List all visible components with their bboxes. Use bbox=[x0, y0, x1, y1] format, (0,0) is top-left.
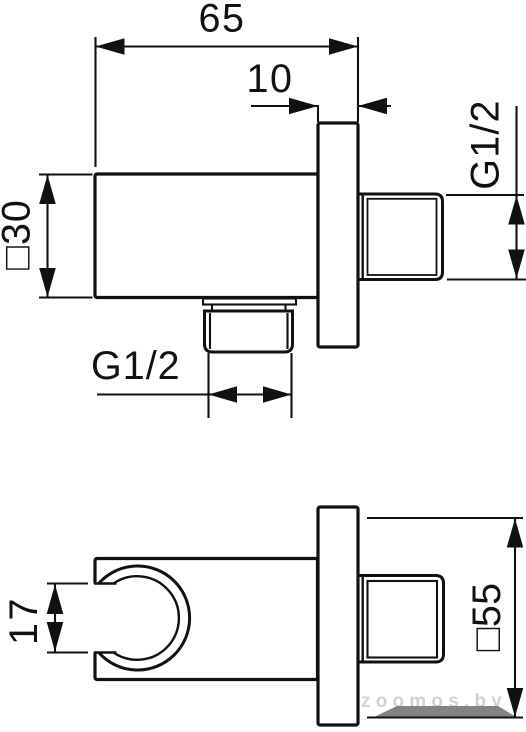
svg-text:17: 17 bbox=[2, 596, 46, 645]
dimension G1/2 (right): up arrowhead bbox=[508, 196, 525, 225]
dimension G1/2 (nut): leader line bbox=[97, 393, 292, 395]
dimension G1/2 (right): extension line top bbox=[446, 194, 524, 196]
svg-text:10: 10 bbox=[247, 57, 294, 101]
top view: union nut flange bbox=[203, 299, 296, 312]
bottom view: wall plate bbox=[318, 507, 358, 725]
dimension G1/2 (nut): extension line left bbox=[207, 353, 209, 418]
dimension G1/2 (right): down arrowhead bbox=[508, 250, 525, 279]
top view: threaded connector G1/2 outer bbox=[358, 194, 443, 280]
dimension 17: dimension line bbox=[54, 584, 56, 652]
dimension G1/2 (right): dimension line bbox=[515, 106, 517, 279]
svg-text:□55: □55 bbox=[465, 583, 509, 652]
dimension 65: extension line right bbox=[357, 37, 359, 122]
dimension 30: top arrowhead bbox=[39, 175, 56, 204]
svg-text:G1/2: G1/2 bbox=[464, 99, 508, 189]
dimension 30: extension line bottom bbox=[39, 296, 93, 298]
watermark shadow blob bbox=[373, 706, 517, 718]
dimension 17: down arrowhead bbox=[47, 622, 64, 652]
bottom view: cradle inner arc bbox=[114, 576, 179, 660]
dimension 55: dimension line bbox=[514, 518, 516, 718]
dimension 10: left leader bbox=[251, 105, 318, 107]
dimension 30: dimension line bbox=[46, 175, 48, 298]
bottom view: threaded connector G1/2 outer bbox=[358, 576, 444, 663]
dimension 17: up arrowhead bbox=[47, 585, 64, 615]
dimension 17: extension line bottom bbox=[47, 651, 88, 653]
top view: wall plate bbox=[318, 123, 358, 347]
dimension 10: extension line bbox=[317, 105, 319, 122]
svg-text:G1/2: G1/2 bbox=[91, 344, 181, 388]
dimension G1/2 (nut): extension line right bbox=[290, 353, 292, 418]
dimension 10: right arrowhead bbox=[358, 98, 387, 115]
dimension 30: extension line top bbox=[39, 173, 93, 175]
bottom view: lower lip line bbox=[94, 651, 117, 653]
dimension G1/2 (nut): right arrowhead bbox=[263, 386, 292, 403]
dimension 10: left arrowhead bbox=[289, 98, 318, 115]
bottom view: holder body with notch bbox=[95, 559, 318, 680]
dimension 55: extension line top bbox=[367, 517, 523, 519]
dimension 65: extension line left bbox=[94, 37, 96, 167]
dimension 65: right arrowhead bbox=[329, 38, 358, 55]
top view: main body block bbox=[95, 174, 318, 298]
svg-text:□30: □30 bbox=[0, 199, 39, 270]
dimension 65: dimension line bbox=[96, 45, 359, 47]
dimension 55: up arrowhead bbox=[507, 519, 524, 548]
dimension 10: right leader bbox=[358, 105, 391, 107]
bottom view: upper lip line bbox=[94, 582, 117, 584]
svg-text:65: 65 bbox=[199, 0, 246, 41]
dimension G1/2 (nut): left arrowhead bbox=[209, 386, 238, 403]
dimension 65: left arrowhead bbox=[96, 38, 125, 55]
dimension 17: extension line top bbox=[47, 582, 88, 584]
bottom view: cradle outer arc bbox=[99, 566, 190, 670]
dimension G1/2 (right): extension line bottom bbox=[447, 278, 526, 280]
dimension 30: bottom arrowhead bbox=[39, 268, 56, 297]
dimension 55: extension line bottom bbox=[367, 716, 523, 718]
dimension 55: down arrowhead bbox=[507, 688, 524, 717]
top view: union nut body bbox=[205, 311, 293, 352]
